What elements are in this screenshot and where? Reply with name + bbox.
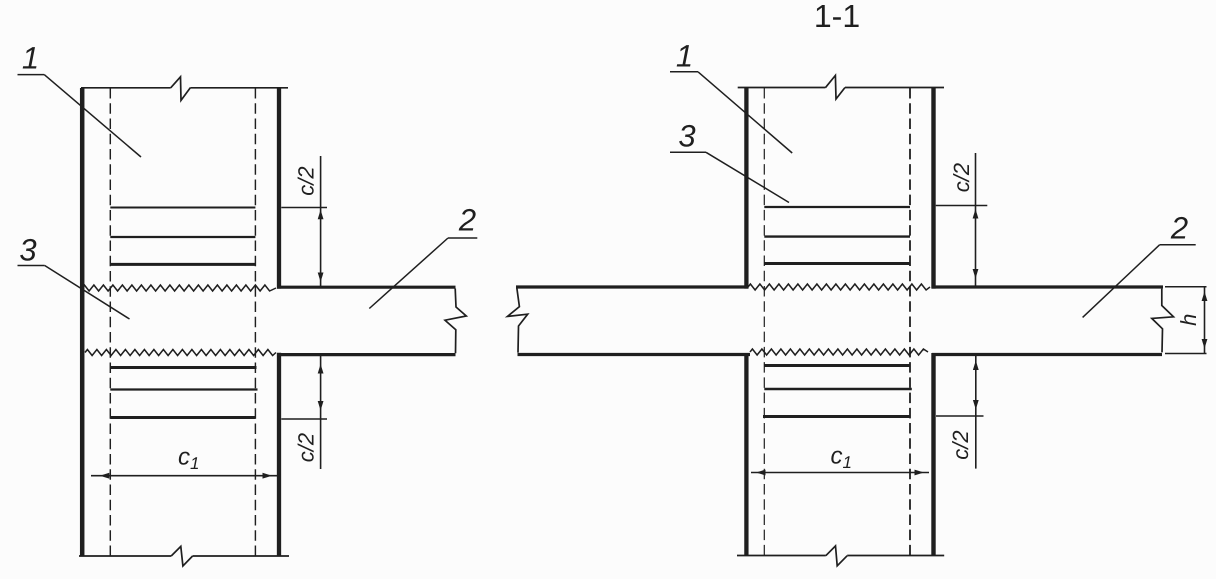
left view: label 3 underline xyxy=(18,265,45,267)
left view: slab right end break line xyxy=(445,289,466,354)
right view: label 2 underline xyxy=(1160,244,1196,246)
left view: slab top edge (thick) xyxy=(277,286,456,289)
right view: upper c/2 extension line xyxy=(936,205,988,207)
right view: wavy joint at slab bottom level xyxy=(750,349,928,355)
svg-text:1: 1 xyxy=(676,39,693,74)
right view: stirrup line 6 below slab (thick) xyxy=(763,415,910,418)
right view: stirrup line 3 above slab (thick) xyxy=(764,262,910,265)
right view: column left edge above slab (thick) xyxy=(744,88,748,289)
left view: wavy joint at slab bottom level xyxy=(85,350,276,356)
svg-text:h: h xyxy=(1176,314,1201,326)
right view: lower c/2 extension line xyxy=(936,415,984,417)
left view: stirrup line 3 above slab (thick) xyxy=(110,263,255,266)
left view: column left edge (thick) xyxy=(80,88,85,556)
left view: label 2 leader xyxy=(369,238,448,309)
right view: label 3 leader xyxy=(706,152,789,202)
right view: h top extension line xyxy=(1165,286,1207,288)
right view: slab left bottom edge (thick) xyxy=(518,353,751,356)
right view: label 1 leader xyxy=(698,72,792,153)
left view: slab bottom edge (thick) xyxy=(277,353,456,356)
right view: label 2 leader xyxy=(1083,245,1160,318)
svg-text:c1: c1 xyxy=(178,444,199,474)
right view: slab left end break line xyxy=(508,288,528,353)
right view: slab right end break line xyxy=(1152,289,1174,353)
left view: stirrup line 6 below slab (thick) xyxy=(110,416,255,419)
svg-text:c1: c1 xyxy=(831,443,852,473)
right view: column bottom cut line xyxy=(737,555,826,557)
right view: column left edge below slab (thick) xyxy=(744,353,748,556)
right view: column top cut line xyxy=(738,87,826,89)
right view: c1 left arrow xyxy=(756,470,766,476)
right view: h arrow down xyxy=(1202,339,1208,349)
left view: lower c/2 arrow down xyxy=(318,401,324,411)
svg-text:c/2: c/2 xyxy=(294,433,319,462)
right view: stirrup line 4 below slab (thick) xyxy=(764,364,910,367)
left view: stirrup line 4 below slab (thick) xyxy=(110,366,256,369)
left view: stirrup line 2 above slab xyxy=(110,236,255,238)
left view: upper c/2 arrow down xyxy=(318,273,324,283)
svg-text:c/2: c/2 xyxy=(948,430,973,459)
right view: column right edge below slab (thick) xyxy=(931,353,935,556)
right view: c1 dimension line xyxy=(751,472,929,474)
left view: upper c/2 arrow up xyxy=(318,210,324,220)
right view: upper c/2 arrow up xyxy=(973,209,979,219)
right view: column rebar dashed line right xyxy=(909,88,911,556)
right view: lower c/2 arrow down xyxy=(973,400,979,410)
right view: stirrup line 2 above slab xyxy=(764,235,910,237)
right view: column rebar dashed line left xyxy=(763,88,765,556)
right view: wavy joint at slab top level xyxy=(748,284,930,290)
left view: stirrup line 5 below slab xyxy=(110,388,257,390)
left view: lower c/2 arrow up xyxy=(318,364,324,374)
left view: label 1 leader xyxy=(44,75,141,157)
right view: lower c/2 arrow up xyxy=(973,361,979,371)
right view: stirrup line 5 below slab xyxy=(764,388,912,390)
left view: column rebar dashed line right xyxy=(254,88,256,556)
right view: h arrow up xyxy=(1202,292,1208,302)
right view: label 1 underline xyxy=(670,71,698,73)
left view: column right edge above slab (thick) xyxy=(277,88,281,289)
left view: upper c/2 extension line xyxy=(281,207,327,209)
svg-text:1: 1 xyxy=(22,40,39,75)
left view: column bottom cut line xyxy=(79,555,171,557)
right view: h bottom extension line xyxy=(1165,353,1207,355)
left view: column top break symbol xyxy=(171,77,191,101)
right view: column right edge above slab (thick) xyxy=(931,88,935,289)
left view: wavy joint at slab top level xyxy=(82,285,276,291)
right view: h dimension line xyxy=(1204,287,1206,354)
left view: label 3 leader xyxy=(45,266,130,320)
left view: column top cut line xyxy=(81,87,171,89)
svg-text:2: 2 xyxy=(1170,211,1188,246)
right view: slab right top edge (thick) xyxy=(932,285,1163,288)
right view: lower c/2 dimension line xyxy=(975,356,977,469)
right view: column bottom break symbol xyxy=(826,546,847,566)
right view: upper c/2 arrow down xyxy=(973,269,979,279)
svg-text:1-1: 1-1 xyxy=(814,0,860,34)
right view: stirrup line 1 above slab xyxy=(764,206,910,208)
left view: column right edge below slab (thick) xyxy=(277,353,281,556)
left view: lower c/2 dimension line xyxy=(320,356,322,469)
right view: c1 right arrow xyxy=(915,470,925,476)
svg-text:c/2: c/2 xyxy=(949,163,974,192)
left view: lower c/2 extension line xyxy=(281,418,327,420)
svg-text:2: 2 xyxy=(458,203,476,238)
svg-text:3: 3 xyxy=(19,233,36,268)
left view: c1 dimension line xyxy=(91,475,281,477)
left view: column bottom break symbol xyxy=(171,546,192,566)
left view: label 2 underline xyxy=(448,237,477,239)
svg-text:c/2: c/2 xyxy=(294,166,319,195)
left view: stirrup line 1 above slab xyxy=(110,207,255,209)
left view: c1 left arrow xyxy=(100,473,110,479)
right view: upper c/2 dimension line xyxy=(975,153,977,287)
right view: column top break symbol xyxy=(825,75,845,99)
right view: label 3 underline xyxy=(670,151,706,153)
left view: upper c/2 dimension line xyxy=(320,156,322,287)
left view: column rebar dashed line left xyxy=(109,88,111,556)
left view: c1 right arrow xyxy=(263,473,273,479)
left view: label 1 underline xyxy=(18,74,45,76)
right view: slab left top edge (thick) xyxy=(516,285,748,288)
svg-text:3: 3 xyxy=(678,119,695,154)
right view: slab right bottom edge (thick) xyxy=(932,353,1162,356)
